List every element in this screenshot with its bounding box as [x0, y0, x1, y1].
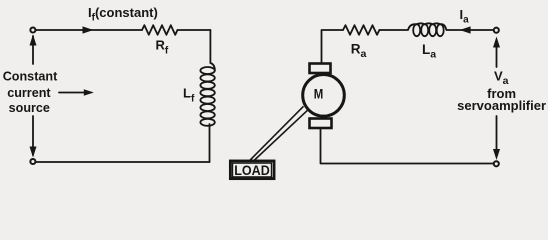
svg-text:M: M	[314, 87, 324, 102]
svg-text:Constant: Constant	[3, 70, 58, 84]
svg-text:current: current	[7, 86, 51, 100]
svg-text:source: source	[9, 101, 50, 115]
svg-text:servoamplifier: servoamplifier	[457, 98, 546, 113]
svg-text:LOAD: LOAD	[234, 163, 270, 178]
